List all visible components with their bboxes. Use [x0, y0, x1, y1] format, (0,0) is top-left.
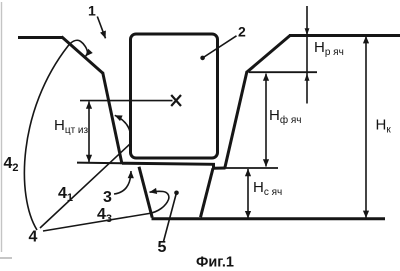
svg-text:42: 42 — [4, 155, 19, 174]
leader curve for 4_2 — [24, 40, 87, 230]
svg-text:Нр яч: Нр яч — [314, 39, 344, 58]
svg-text:41: 41 — [58, 185, 73, 204]
wire: floor extension line left (for Hцт из dimension) — [77, 162, 122, 165]
wire: left ground surface line — [18, 36, 63, 39]
svg-text:Нк: Нк — [376, 117, 392, 136]
wire: floor extension line right (for dimensions) — [226, 167, 279, 169]
wire: right trench steep wall — [225, 71, 247, 168]
svg-text:1: 1 — [88, 3, 96, 19]
wire: pit left wall — [139, 167, 152, 218]
dimension Hр яч lower arrowhead — [305, 74, 310, 81]
wire: left trench upper slope — [62, 37, 103, 73]
leader arrow for 1 — [97, 17, 105, 39]
svg-text:Нцт из: Нцт из — [54, 117, 89, 136]
svg-text:4: 4 — [29, 229, 38, 246]
leader curve for 4_3 — [43, 191, 169, 231]
node: centre-of-gravity axis line — [80, 100, 173, 102]
dimension Hф яч — [265, 74, 267, 167]
wire: trench floor line under mould — [122, 163, 226, 168]
faint scan border left edge — [1, 2, 3, 252]
dimension Hк — [365, 36, 367, 218]
svg-text:2: 2 — [238, 24, 246, 40]
wire: ledge reference line right — [249, 71, 317, 73]
wire: right ground surface line — [289, 34, 400, 37]
leader arrow for 3 — [114, 171, 131, 194]
wire: pit right wall — [201, 168, 214, 217]
faint scan smudge bottom-left — [0, 257, 12, 259]
dimension Hцт из — [88, 102, 90, 163]
dimension Hр яч upper arrowhead — [305, 28, 310, 35]
svg-text:Нс яч: Нс яч — [253, 179, 282, 198]
svg-text:Фиг.1: Фиг.1 — [196, 255, 234, 271]
dimension Hр яч extension line — [306, 6, 308, 104]
mould block 2 (rounded rectangle) — [131, 34, 218, 158]
svg-text:Нф яч: Нф яч — [269, 107, 301, 126]
svg-text:3: 3 — [103, 189, 112, 206]
leader line for 4_1 — [40, 115, 131, 228]
node X: centre-of-gravity cross mark — [171, 95, 181, 106]
leader line for 5 with dot — [164, 195, 177, 242]
wire: left trench lower steep wall — [103, 72, 122, 164]
svg-text:5: 5 — [158, 239, 167, 256]
leader line for 2 with dot — [204, 36, 237, 57]
dimension Hс яч — [247, 169, 249, 218]
wire: bottom base line — [152, 217, 386, 220]
wire: right trench upper slope — [247, 36, 290, 73]
